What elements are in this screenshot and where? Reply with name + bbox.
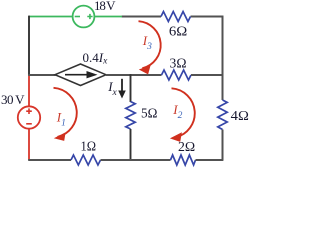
resistor R 1ohm on bottom wire [71, 155, 101, 165]
wire: right rail lower segment [222, 130, 224, 161]
wire: bottom wire middle segment [101, 159, 171, 161]
wire: top wire dark segment right of 6-ohm resistor to top-right corner [191, 16, 224, 18]
wire: middle horizontal wire from left rail to dependent source [28, 74, 55, 76]
svg-text:1Ω: 1Ω [81, 139, 97, 154]
wire: green wire from 18V source right side [94, 16, 122, 18]
voltage source V2 30V (red circle, + top - bottom) [18, 106, 40, 128]
resistor R 3ohm on middle wire [162, 70, 192, 80]
svg-text:4Ω: 4Ω [231, 109, 249, 124]
svg-text:2Ω: 2Ω [178, 140, 195, 155]
resistor R 6ohm on top wire [161, 12, 191, 22]
wire: middle wire right segment to right rail [191, 74, 223, 76]
svg-text:I2: I2 [172, 102, 182, 121]
svg-text:6Ω: 6Ω [169, 25, 187, 40]
resistor R 4ohm on right rail [218, 100, 227, 130]
svg-text:3Ω: 3Ω [170, 57, 187, 72]
wire: right rail upper segment [222, 16, 224, 100]
mesh current arrow I3 (red semicircle, arrowhead bottom pointing west) [139, 21, 161, 74]
current arrow Ix (down) [118, 79, 126, 99]
voltage source V1 18V (green circle, - left + right) [73, 6, 95, 28]
svg-text:Ix: Ix [107, 79, 117, 98]
mesh current arrow I2 (red semicircle, arrowhead bottom pointing west) [170, 88, 195, 142]
wire: left rail red lead above 30V source [28, 75, 30, 107]
wire: left rail red lead below 30V source [28, 129, 30, 161]
svg-text:18 V: 18 V [94, 0, 116, 13]
svg-text:0.4Ix: 0.4Ix [83, 50, 109, 67]
wire: top wire dark segment between 18V source branch and 6-ohm resistor [122, 16, 162, 18]
wire: middle vertical branch upper segment with Ix [130, 74, 132, 102]
svg-text:30 V: 30 V [1, 92, 25, 107]
wire: bottom wire left segment [28, 159, 71, 161]
svg-text:I3: I3 [142, 33, 152, 52]
mesh current arrow I1 (red semicircle, arrowhead bottom pointing west) [54, 88, 77, 141]
wire: bottom wire right segment [196, 159, 224, 161]
wire: middle wire from dependent source to middle branch and 3-ohm resistor [106, 74, 162, 76]
wire: green top-left wire from corner to 18V source [29, 16, 73, 18]
wire: left rail upper dark segment [28, 16, 30, 75]
circuit schematic: mesh analysis with dependent source [0, 0, 251, 168]
wire: middle vertical branch lower segment [130, 129, 132, 160]
dependent current source 0.4Ix (diamond with right arrow) [55, 64, 106, 86]
resistor R 5ohm on middle branch [126, 102, 135, 130]
resistor R 2ohm on bottom wire [171, 155, 196, 165]
svg-text:5Ω: 5Ω [141, 106, 157, 121]
svg-text:I1: I1 [56, 110, 66, 129]
